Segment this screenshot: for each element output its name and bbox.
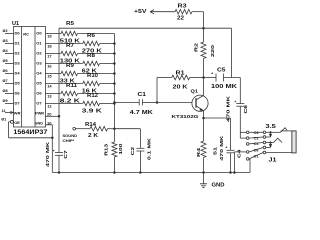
svg-text:KT3102G: KT3102G [172, 114, 199, 120]
wire R12 to bus [100, 103, 115, 105]
jack tip contact [266, 131, 281, 133]
svg-text:SOUND: SOUND [63, 133, 78, 138]
wire emitter down [203, 111, 205, 141]
svg-text:R10: R10 [87, 73, 98, 79]
jack pin 5 left terminal [246, 158, 249, 161]
wire C5 node down to C6 [239, 78, 241, 104]
resistor R3 22 [175, 9, 192, 14]
wire R11 to bus [78, 93, 115, 95]
svg-text:22: 22 [177, 16, 184, 22]
wire down to C2 [139, 129, 141, 149]
WR stub [5, 112, 14, 114]
wire pin to R11 [46, 93, 62, 95]
junction OE/GND [51, 137, 54, 140]
op IC U1 1564IR37 box [14, 27, 46, 128]
wire R2 to collector node [203, 59, 205, 78]
wire R1 to collector node [190, 77, 204, 79]
OE stub [9, 121, 11, 123]
wire rail to R2 [203, 28, 205, 42]
svg-text:1564ИР37: 1564ИР37 [13, 129, 47, 136]
wire +5V vertical to PWR/C7 [58, 28, 60, 152]
wire R3 to corner [192, 11, 204, 13]
wire summing bus [113, 34, 115, 129]
capacitor C4 bottom plate [227, 152, 235, 154]
jack ring hook [274, 138, 283, 142]
wire OE to ground net [9, 137, 53, 139]
svg-text:C2: C2 [254, 136, 259, 140]
capacitor C4 top plate [227, 149, 235, 151]
wire R1 down to base [156, 78, 158, 103]
junction bus/R11 [113, 92, 116, 95]
Q1 emitter lead [196, 106, 204, 111]
wire pin to R8 [46, 63, 83, 65]
input stub D3 [5, 63, 14, 65]
svg-text:100 MK: 100 MK [211, 84, 238, 90]
junction bus/R8 [113, 62, 116, 65]
ground rail [52, 172, 250, 174]
svg-text:C6: C6 [243, 105, 249, 114]
wire bus to C2 branch [114, 128, 140, 130]
resistor R10 16 K [83, 81, 100, 86]
svg-text:0.1 MK: 0.1 MK [146, 137, 152, 160]
svg-text:Ø2: Ø2 [3, 29, 8, 33]
wire jack sleeve to gnd rail [249, 159, 251, 173]
input stub D0 [5, 33, 14, 35]
wire to jack pin 4 [234, 151, 246, 153]
input stub D6 [5, 93, 14, 95]
svg-text:O1: O1 [36, 41, 42, 46]
svg-text:Q1: Q1 [191, 89, 199, 94]
input stub D4 [5, 73, 14, 75]
wire pin to R6 [46, 43, 83, 45]
svg-text:D5: D5 [15, 81, 21, 86]
wire jack pin4 to ground rail [233, 152, 235, 173]
jack ring contact [266, 142, 274, 144]
wire bus to R13 [113, 129, 115, 142]
wire terminal to R14 [76, 128, 91, 130]
svg-text:2 K: 2 K [88, 133, 98, 139]
ground bar 1 [200, 183, 207, 185]
IC inner line left [21, 27, 23, 128]
wire pin10 down to gnd rail [51, 125, 53, 173]
jack switch arrow 2 [269, 144, 272, 147]
junction bus/R14/C2 [113, 127, 116, 130]
jack switch arrow 1 [269, 134, 272, 137]
Q1 base bar [195, 98, 197, 107]
wire R6 to bus [100, 43, 115, 45]
junction base node [156, 101, 159, 104]
terminal to sound chip [73, 127, 76, 130]
svg-text:R11: R11 [66, 83, 77, 89]
svg-text:O6: O6 [36, 91, 42, 96]
wire pin to R7 [46, 53, 62, 55]
jack switch link 1 [270, 132, 272, 137]
wire C4 to ground rail [230, 153, 232, 173]
svg-text:R8: R8 [87, 53, 95, 59]
svg-text:+: + [225, 146, 227, 150]
wire to Q1 base [157, 102, 192, 104]
svg-text:470 MK: 470 MK [45, 141, 51, 167]
wire emitter to C4 [204, 117, 231, 119]
svg-text:15: 15 [47, 73, 52, 78]
jack switch link 2 [270, 143, 272, 148]
svg-text:RC: RC [23, 31, 29, 36]
svg-text:GND: GND [35, 121, 44, 125]
capacitor C5 left plate [215, 74, 217, 82]
jack pin 4 contact [263, 146, 266, 149]
wire +5V to R3 [156, 11, 175, 13]
jack pin 4 link [249, 148, 263, 152]
svg-text:O5: O5 [36, 81, 42, 86]
svg-text:+5V: +5V [134, 9, 147, 15]
svg-text:D3: D3 [15, 61, 21, 66]
wire collector up [203, 78, 205, 96]
junction bus/R9 [113, 72, 116, 75]
svg-text:Ø6: Ø6 [3, 69, 8, 73]
jack plug top line [281, 130, 292, 132]
jack pin 3 contact [263, 141, 266, 144]
+5V arrow [150, 10, 156, 14]
input stub D1 [5, 43, 14, 45]
svg-text:C2: C2 [130, 146, 136, 155]
svg-text:Ø5: Ø5 [3, 59, 8, 63]
wire R4 to ground rail [203, 158, 205, 173]
IC inner line right [34, 27, 36, 128]
wire to jack pin 2 [240, 137, 246, 139]
wire C2 to gnd rail [139, 151, 141, 173]
jack pin 2 left terminal [246, 137, 249, 140]
svg-text:OE: OE [14, 120, 20, 125]
jack pin 3 left terminal [246, 143, 249, 146]
wire R5 to bus [78, 33, 115, 35]
svg-text:O4: O4 [36, 71, 42, 76]
svg-text:C5: C5 [217, 68, 226, 74]
jack pin 1 link [249, 131, 263, 133]
resistor R4 51 [201, 141, 206, 158]
svg-text:20 K: 20 K [173, 85, 189, 91]
jack pin 5 link [249, 153, 263, 159]
jack pin 2 link [249, 137, 263, 138]
input stub D5 [5, 83, 14, 85]
junction bus/R10 [113, 82, 116, 85]
resistor R2 220 [201, 42, 206, 59]
junction +5V/pin20 [58, 115, 61, 118]
jack sleeve body [292, 131, 296, 153]
jack pin 1 left terminal [246, 131, 249, 134]
resistor R9 33 K [61, 71, 78, 76]
svg-text:D1: D1 [15, 41, 21, 46]
svg-text:R9: R9 [66, 63, 74, 69]
wire C6 down to jack [239, 106, 241, 138]
junction pin4 wire/gnd rail [233, 171, 236, 174]
svg-text:Ø7: Ø7 [3, 79, 8, 83]
Q1 emitter arrow [200, 108, 203, 110]
Q1 collector lead [196, 96, 204, 100]
capacitor C7 top plate [55, 152, 63, 154]
svg-text:D0: D0 [15, 31, 21, 36]
svg-text:U1: U1 [12, 21, 19, 27]
svg-text:D2: D2 [15, 51, 21, 56]
junction rail/R2 [202, 27, 205, 30]
svg-text:D4: D4 [15, 71, 21, 76]
capacitor C2 top plate [136, 147, 144, 149]
junction bus/R6 [113, 42, 116, 45]
svg-text:R2: R2 [194, 43, 200, 52]
svg-text:18: 18 [47, 43, 52, 48]
svg-text:470 MK: 470 MK [219, 135, 225, 161]
wire bus to C1 [114, 102, 139, 104]
capacitor C5 right plate [223, 74, 225, 82]
jack pin2 wire [266, 136, 271, 138]
resistor R5 510 K [61, 31, 78, 36]
resistor R1 20 K [172, 75, 190, 80]
svg-text:C1: C1 [254, 154, 259, 158]
jack tip hook [281, 128, 288, 133]
jack sleeve wire [266, 152, 292, 154]
wire pin to R10 [46, 83, 83, 85]
jack pin 2 contact [263, 136, 266, 139]
svg-text:R3: R3 [178, 4, 187, 10]
svg-text:D6: D6 [15, 91, 21, 96]
wire R9 to bus [78, 73, 115, 75]
junction C4/gnd rail [229, 171, 232, 174]
svg-text:PWR: PWR [35, 112, 44, 116]
transistor Q1 KT3102G circle [192, 95, 208, 111]
wire R14 to bus [108, 128, 115, 130]
junction bus/R12 [113, 102, 116, 105]
wire C7 to gnd rail [58, 155, 60, 172]
wire pin to R9 [46, 73, 62, 75]
wire down to C4 [230, 118, 232, 150]
wire C5 to coupling line [224, 77, 241, 79]
resistor R7 130 K [61, 51, 78, 56]
wire pin to R5 [46, 33, 62, 35]
svg-text:4.7 MK: 4.7 MK [130, 110, 154, 116]
WR dynamic arrow [10, 111, 13, 114]
junction bus/C1 [113, 101, 116, 104]
capacitor C1 right plate [141, 99, 143, 105]
svg-text:+: + [53, 149, 55, 153]
junction C7/gnd rail [58, 171, 61, 174]
svg-text:Ø3: Ø3 [3, 39, 8, 43]
svg-text:O3: O3 [36, 61, 42, 66]
svg-text:3.5: 3.5 [265, 124, 276, 130]
svg-text:12: 12 [47, 103, 52, 108]
OE inversion bubble [10, 120, 13, 123]
svg-text:3.9 K: 3.9 K [82, 108, 103, 114]
svg-text:51: 51 [212, 147, 218, 155]
wire R13 to gnd rail [113, 157, 115, 173]
svg-text:O7: O7 [36, 101, 42, 106]
capacitor C6 bottom plate [236, 105, 244, 107]
capacitor C1 left plate [138, 99, 140, 105]
svg-text:WR: WR [14, 111, 21, 116]
ground bar 3 [202, 187, 204, 189]
wire down to rail [203, 12, 205, 29]
svg-text:O0: O0 [36, 31, 42, 36]
input stub D7 [5, 103, 14, 105]
svg-text:13: 13 [47, 93, 52, 98]
wire to jack pin 1 [240, 131, 246, 133]
svg-text:C1: C1 [138, 92, 147, 98]
svg-text:Ø9: Ø9 [3, 99, 8, 103]
svg-text:R13: R13 [104, 143, 110, 155]
svg-text:R5: R5 [66, 21, 74, 27]
svg-text:Ø4: Ø4 [3, 49, 9, 53]
wire OE down [8, 122, 10, 138]
junction R4/gnd rail [202, 171, 205, 174]
wire base branch to R1 [157, 77, 172, 79]
junction emitter/C4 branch [202, 117, 205, 120]
svg-text:16: 16 [47, 63, 52, 68]
svg-text:100: 100 [118, 143, 124, 154]
svg-text:C7: C7 [63, 150, 69, 159]
resistor R14 2 K [90, 126, 108, 131]
junction R13/gnd rail [113, 171, 116, 174]
svg-text:CHIP*: CHIP* [63, 138, 75, 143]
resistor R6 270 K [83, 41, 100, 46]
jack pin 5 contact [263, 151, 266, 154]
junction C2/gnd rail [139, 171, 142, 174]
jack pin 3 link [249, 143, 263, 144]
svg-text:O2: O2 [36, 51, 42, 56]
wire R8 to bus [100, 63, 115, 65]
pin 20 stub [46, 115, 60, 117]
svg-text:D7: D7 [15, 101, 21, 106]
svg-text:R6: R6 [87, 33, 95, 39]
pin 10 stub [46, 124, 53, 126]
capacitor C7 bottom plate [55, 154, 63, 156]
svg-text:220: 220 [210, 45, 216, 57]
jack pin 1 contact [263, 131, 266, 134]
junction bus/R7 [113, 52, 116, 55]
capacitor C2 bottom plate [136, 150, 144, 152]
svg-text:R12: R12 [87, 93, 98, 99]
junction collector node [202, 76, 205, 79]
resistor R13 100 [112, 142, 117, 157]
svg-text:20: 20 [47, 111, 52, 116]
resistor R11 8.2 K [61, 91, 78, 96]
svg-text:C4: C4 [237, 149, 243, 158]
wire pin to R12 [46, 103, 83, 105]
jack pin4 wire [266, 147, 271, 149]
resistor R12 3.9 K [83, 101, 100, 106]
wire +5V top rail [59, 27, 232, 29]
wire C1 to base node [142, 102, 157, 104]
wire collector node to C5 [204, 77, 217, 79]
input stub D2 [5, 53, 14, 55]
svg-text:14: 14 [47, 83, 52, 88]
resistor R8 62 K [83, 61, 100, 66]
svg-text:Ø1: Ø1 [1, 118, 6, 122]
svg-text:19: 19 [47, 33, 52, 38]
svg-text:R7: R7 [66, 43, 74, 49]
svg-text:Ø8: Ø8 [3, 89, 8, 93]
capacitor C6 top plate [236, 103, 244, 105]
svg-text:R4: R4 [196, 148, 202, 157]
ground bar 2 [201, 185, 206, 187]
GND symbol drop [203, 173, 205, 184]
svg-text:C3: C3 [254, 131, 259, 135]
svg-text:17: 17 [47, 53, 52, 58]
wire R7 to bus [78, 53, 115, 55]
jack sleeve stub [249, 158, 250, 160]
svg-text:J1: J1 [269, 157, 277, 163]
wire rail down to C5 node [231, 28, 233, 77]
svg-text:GND: GND [212, 183, 225, 189]
svg-text:C6: C6 [254, 148, 259, 152]
jack pin 4 left terminal [246, 151, 249, 154]
wire R10 to bus [100, 83, 115, 85]
svg-text:+: + [234, 100, 236, 104]
